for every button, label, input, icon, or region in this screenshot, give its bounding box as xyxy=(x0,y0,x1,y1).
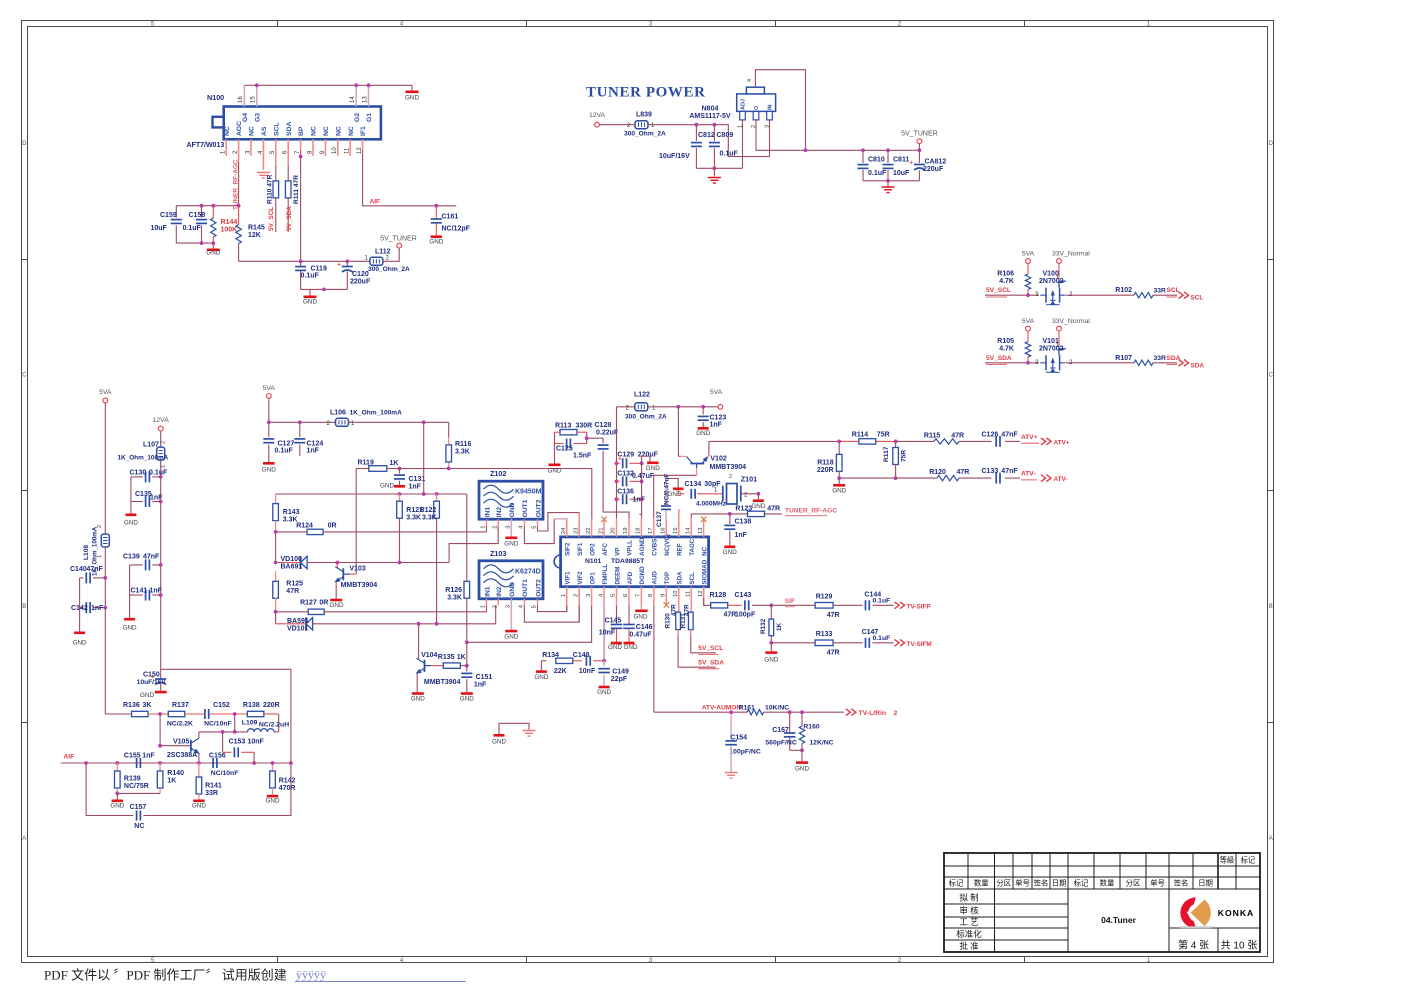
svg-text:签名: 签名 xyxy=(1174,879,1189,888)
wire 33V_Normal to gate xyxy=(1058,331,1060,347)
wire R126 node down to R135/C151 xyxy=(466,642,468,665)
svg-text:NC: NC xyxy=(323,126,330,136)
svg-text:33V_Normal: 33V_Normal xyxy=(1052,318,1090,325)
svg-text:G3: G3 xyxy=(254,113,261,122)
svg-text:2: 2 xyxy=(894,710,898,717)
wire pin10 SDA to R130 xyxy=(678,606,680,612)
svg-text:DEEM: DEEM xyxy=(614,567,621,585)
svg-text:IN1: IN1 xyxy=(484,507,491,518)
svg-text:1: 1 xyxy=(481,605,487,608)
capacitor C131 xyxy=(399,469,401,474)
svg-text:GND: GND xyxy=(751,503,765,510)
svg-text:R134: R134 xyxy=(542,652,559,659)
svg-text:33R: 33R xyxy=(205,790,218,797)
earth ground under C154 xyxy=(725,772,738,774)
transistor V102 MMBT3904 xyxy=(691,463,705,465)
svg-text:0R: 0R xyxy=(319,600,328,607)
net SCL output xyxy=(1153,294,1177,296)
resistor R117 xyxy=(894,440,898,444)
capacitor C810 xyxy=(862,150,864,163)
svg-text:R105: R105 xyxy=(997,338,1014,345)
svg-text:R116: R116 xyxy=(455,441,471,448)
svg-text:R138: R138 xyxy=(243,702,260,709)
wire to R115 xyxy=(896,440,934,442)
svg-text:TV-SIFP: TV-SIFP xyxy=(907,603,932,610)
svg-text:R124: R124 xyxy=(296,523,313,530)
svg-text:数量: 数量 xyxy=(974,879,989,888)
resistor R142 xyxy=(272,763,274,771)
svg-text:R136: R136 xyxy=(123,702,140,709)
net SDA output xyxy=(1153,362,1177,364)
N100 bottom pin stubs xyxy=(225,139,227,156)
wire R127 row xyxy=(274,610,278,614)
V102 collector wire to 5VA rail xyxy=(681,455,687,457)
svg-text:V104: V104 xyxy=(421,652,437,659)
V104 emitter to gnd xyxy=(416,674,418,692)
svg-text:0.1uF: 0.1uF xyxy=(275,448,294,455)
resistor R116 xyxy=(448,437,450,444)
svg-text:C138: C138 xyxy=(735,519,752,526)
svg-text:C119: C119 xyxy=(311,266,327,273)
capacitor C153 branch xyxy=(222,732,224,752)
svg-text:R128: R128 xyxy=(710,592,727,599)
capacitor C161 xyxy=(435,206,437,219)
svg-text:ATV+: ATV+ xyxy=(1054,440,1070,447)
svg-text:GND: GND xyxy=(795,766,809,773)
svg-text:GND: GND xyxy=(262,467,276,474)
svg-text:1nF: 1nF xyxy=(91,605,104,612)
svg-text:GND: GND xyxy=(646,465,660,472)
transistor V104 MMBT3904 xyxy=(418,624,420,659)
svg-text:ATV-AUMONI: ATV-AUMONI xyxy=(702,705,743,712)
svg-text:IN1: IN1 xyxy=(484,586,491,597)
svg-text:3.3K: 3.3K xyxy=(422,515,437,522)
svg-text:REF: REF xyxy=(677,543,684,556)
resistor R102 33R xyxy=(1134,293,1153,298)
svg-text:SCL: SCL xyxy=(273,122,280,136)
wire bottom AGC rail xyxy=(176,242,213,244)
terminal 12VA xyxy=(595,122,600,127)
wire N804 pin1 to gnd rail xyxy=(742,120,744,168)
svg-text:C153: C153 xyxy=(229,738,246,745)
svg-text:330R: 330R xyxy=(576,423,593,430)
svg-text:2: 2 xyxy=(161,441,167,444)
svg-text:SDA: SDA xyxy=(1167,355,1181,362)
svg-text:5VA: 5VA xyxy=(263,385,276,392)
svg-text:100pF: 100pF xyxy=(735,612,756,619)
svg-text:C158: C158 xyxy=(189,212,206,219)
svg-text:R114: R114 xyxy=(852,432,868,439)
svg-text:R141: R141 xyxy=(205,783,222,790)
svg-text:单号: 单号 xyxy=(1150,879,1165,888)
capacitor C812 xyxy=(695,125,697,141)
svg-text:220R: 220R xyxy=(263,702,280,709)
transistor V103 MMBT3904 xyxy=(336,563,338,569)
wire C140 C142 left gnd xyxy=(79,578,81,632)
svg-text:D: D xyxy=(22,141,27,147)
svg-text:NC/12pF: NC/12pF xyxy=(442,225,471,232)
wire L106 node down xyxy=(423,422,425,494)
capacitor C134 xyxy=(677,490,679,494)
svg-text:1nF: 1nF xyxy=(150,588,163,595)
svg-text:1nF: 1nF xyxy=(409,484,422,491)
capacitor C138 xyxy=(729,514,731,524)
svg-text:GND: GND xyxy=(764,657,778,664)
wire R119 down to V103 base xyxy=(355,469,357,575)
svg-text:ATV+: ATV+ xyxy=(1021,434,1038,441)
wire mid rail R119-R116-pin22 xyxy=(356,469,592,521)
crystal Z101 xyxy=(727,484,738,505)
wire VD101 row xyxy=(275,612,277,624)
wire REF pin15 stub xyxy=(678,509,680,518)
svg-text:SCL: SCL xyxy=(1167,287,1180,294)
svg-text:C143: C143 xyxy=(735,592,752,599)
svg-text:G2: G2 xyxy=(354,113,361,122)
svg-text:4: 4 xyxy=(747,79,753,82)
capacitor C143 xyxy=(744,600,746,610)
Z102 pin stubs and numbers xyxy=(486,519,488,526)
wire 12VA rail bottom to right xyxy=(161,668,291,670)
svg-text:VIF1: VIF1 xyxy=(565,571,572,585)
terminal 33V_Normal (V101) xyxy=(1057,326,1062,331)
svg-text:22K: 22K xyxy=(554,668,567,675)
net TV-SIFP out xyxy=(895,602,900,609)
svg-text:5VA: 5VA xyxy=(1022,318,1035,325)
svg-text:OUT1: OUT1 xyxy=(522,499,529,517)
svg-text:10nF: 10nF xyxy=(599,629,616,636)
svg-text:GND: GND xyxy=(504,634,518,641)
svg-text:DGND: DGND xyxy=(639,566,646,585)
svg-text:IN2: IN2 xyxy=(496,507,503,518)
ground GND under R144 xyxy=(212,243,214,248)
svg-text:2: 2 xyxy=(729,474,732,480)
wire VD100 cathode rail xyxy=(307,562,449,564)
svg-text:OP2: OP2 xyxy=(589,543,596,556)
capacitor C142 xyxy=(93,607,105,609)
svg-text:GND: GND xyxy=(608,644,622,651)
wire TAGC pin14 to R123 xyxy=(691,514,730,518)
svg-text:C161: C161 xyxy=(442,213,459,220)
svg-text:ADJ: ADJ xyxy=(741,99,747,110)
svg-text:C156: C156 xyxy=(209,753,226,760)
ground GND under C127 xyxy=(263,462,275,465)
inductor L108 xyxy=(101,534,109,547)
svg-text:VP: VP xyxy=(614,548,621,556)
svg-text:CVBS: CVBS xyxy=(652,539,659,556)
svg-text:ÿÿÿÿÿ: ÿÿÿÿÿ xyxy=(296,968,326,982)
terminal 12VA left xyxy=(158,426,163,431)
net 5V_SDA vertical xyxy=(287,198,289,232)
svg-text:K6274D: K6274D xyxy=(515,568,541,575)
svg-text:NC(VC): NC(VC) xyxy=(664,534,671,556)
svg-text:OUT2: OUT2 xyxy=(535,499,542,517)
resistor R140 xyxy=(159,763,161,771)
svg-text:75R: 75R xyxy=(877,432,890,439)
resistor R136 xyxy=(132,711,149,716)
ground GND under R118 xyxy=(838,478,840,484)
svg-text:R107: R107 xyxy=(1115,355,1132,362)
ground GND under C161 xyxy=(431,235,443,238)
wire crystal to gnd xyxy=(741,493,759,495)
wire R131 to 5V_SCL xyxy=(691,636,716,653)
svg-text:5V_TUNER: 5V_TUNER xyxy=(901,131,938,138)
svg-text:AFD: AFD xyxy=(627,571,634,584)
svg-text:SCL: SCL xyxy=(1191,295,1204,302)
wire pin3 OP1 to R126 node xyxy=(467,606,592,643)
svg-text:C150: C150 xyxy=(143,672,160,679)
SAW filter Z103 body xyxy=(479,561,543,599)
svg-text:N100: N100 xyxy=(207,93,224,102)
svg-text:AGC: AGC xyxy=(236,121,243,136)
svg-text:0.1uF: 0.1uF xyxy=(149,470,168,477)
wire L112 to 5V_TUNER xyxy=(383,248,399,261)
wire top rail to GND xyxy=(244,84,412,86)
svg-text:100K: 100K xyxy=(221,227,238,234)
ground GND under C131 xyxy=(394,485,405,488)
svg-text:R110 47R: R110 47R xyxy=(267,174,274,204)
svg-text:OUT1: OUT1 xyxy=(522,579,529,597)
ground GND under C141 xyxy=(124,618,135,621)
resistor R145 xyxy=(238,206,240,225)
resistor R121 xyxy=(399,494,401,501)
svg-text:300_Ohm_2A: 300_Ohm_2A xyxy=(625,414,667,421)
svg-text:AMS1117-5V: AMS1117-5V xyxy=(689,113,731,120)
capacitor C125 xyxy=(555,443,564,445)
svg-text:5V_SDA: 5V_SDA xyxy=(286,206,293,231)
svg-text:R113: R113 xyxy=(555,423,571,430)
svg-text:NC: NC xyxy=(224,126,231,136)
svg-text:300_Ohm_2A: 300_Ohm_2A xyxy=(368,266,410,273)
svg-text:CA812: CA812 xyxy=(925,159,947,166)
wire V102 emitter rail to R114 xyxy=(709,440,839,442)
svg-text:C128: C128 xyxy=(595,422,612,429)
wire CVBS pin17 to V102 base xyxy=(654,475,697,518)
svg-text:16: 16 xyxy=(238,96,244,103)
svg-text:V102: V102 xyxy=(710,456,726,463)
wire left rail R143 to VD100 xyxy=(275,532,277,563)
svg-text:NC: NC xyxy=(335,126,342,136)
resistor R120 xyxy=(937,475,959,480)
svg-text:1K: 1K xyxy=(457,654,466,661)
wire L839 to regulator xyxy=(648,121,770,157)
capacitor C135 xyxy=(152,501,160,503)
svg-text:10K/NC: 10K/NC xyxy=(765,705,789,712)
svg-text:C123: C123 xyxy=(710,415,727,422)
wire 5V_TUNER rail xyxy=(806,149,920,151)
wire pin4 FMPLL down xyxy=(603,606,605,661)
svg-text:04.Tuner: 04.Tuner xyxy=(1101,915,1136,925)
svg-text:TV-L/Rin: TV-L/Rin xyxy=(859,710,887,717)
svg-text:V103: V103 xyxy=(349,566,365,573)
wire AGND pin18 rail xyxy=(639,463,641,514)
N804 pin boxes xyxy=(740,111,746,120)
N101 bottom stubs xyxy=(566,587,568,606)
svg-text:R111 47R: R111 47R xyxy=(293,175,300,204)
svg-text:C130: C130 xyxy=(130,470,147,477)
ground GND top right xyxy=(411,85,413,90)
ground earth under C809 xyxy=(713,168,715,176)
ground GND under C119 xyxy=(309,289,311,295)
svg-text:33V_Normal: 33V_Normal xyxy=(1052,251,1090,258)
resistor R122 xyxy=(436,494,438,501)
wire Z103 pin5 to N101 pin1 xyxy=(538,605,567,611)
capacitor C156 xyxy=(212,758,214,768)
svg-text:220R: 220R xyxy=(817,467,834,474)
svg-text:R127: R127 xyxy=(300,600,317,607)
svg-text:C126: C126 xyxy=(982,432,999,439)
ground GND left of C134 xyxy=(673,488,684,491)
Z103 wavy lines xyxy=(484,565,514,573)
ground GND under Z103 pin3 xyxy=(510,599,512,630)
svg-text:C145: C145 xyxy=(605,617,622,624)
svg-text:C120: C120 xyxy=(352,271,369,278)
svg-text:工 艺: 工 艺 xyxy=(959,917,978,927)
wire pin12 SIOMAD to R128 xyxy=(703,605,705,607)
svg-text:D: D xyxy=(1269,141,1274,147)
capacitor C145 xyxy=(611,624,623,626)
V104 base wire to R135 xyxy=(425,665,432,667)
wire rail y494 xyxy=(276,493,467,495)
svg-text:Z102: Z102 xyxy=(490,469,506,478)
inductor L112 xyxy=(370,257,383,265)
svg-text:日期: 日期 xyxy=(1052,879,1067,888)
svg-text:VPLL: VPLL xyxy=(627,540,634,556)
svg-text:AUD: AUD xyxy=(652,571,659,585)
svg-text:C149: C149 xyxy=(612,669,629,676)
wire SIF row to R129 xyxy=(771,604,815,606)
capacitor C167 xyxy=(789,712,791,732)
net 5V_SDA wire xyxy=(985,362,1039,364)
svg-text:C148: C148 xyxy=(573,652,590,659)
svg-text:4.7K: 4.7K xyxy=(999,346,1014,353)
ground GND under C142 xyxy=(74,632,85,635)
resistor R115 xyxy=(934,439,959,444)
svg-text:IN: IN xyxy=(768,104,774,110)
svg-text:33R: 33R xyxy=(1154,287,1167,294)
terminal 5V_TUNER xyxy=(397,243,402,248)
svg-text:+: + xyxy=(909,160,913,167)
svg-text:IF1: IF1 xyxy=(360,126,367,136)
net AIF wire pin12 xyxy=(362,139,364,150)
Z103 pin stubs and numbers xyxy=(486,599,488,606)
svg-text:R120: R120 xyxy=(929,469,946,476)
svg-text:GND: GND xyxy=(509,582,516,597)
svg-text:C154: C154 xyxy=(730,734,747,741)
svg-text:R117: R117 xyxy=(883,446,890,462)
svg-text:1: 1 xyxy=(161,465,167,468)
terminal 5V_TUNER right xyxy=(918,144,920,151)
svg-text:470R: 470R xyxy=(279,785,296,792)
ground GND under R160 xyxy=(801,750,803,761)
wire 12VA to L839 xyxy=(599,124,634,126)
svg-text:C134: C134 xyxy=(685,481,702,488)
svg-text:GND: GND xyxy=(192,803,206,810)
svg-text:GND: GND xyxy=(597,689,611,696)
svg-text:100pF/NC: 100pF/NC xyxy=(729,748,760,755)
svg-text:220uF: 220uF xyxy=(923,166,944,173)
svg-text:R144: R144 xyxy=(221,219,238,226)
svg-text:1nF: 1nF xyxy=(735,532,748,539)
svg-text:5V_TUNER: 5V_TUNER xyxy=(380,236,417,243)
svg-text:47R: 47R xyxy=(683,604,690,616)
capacitor C119 xyxy=(300,261,302,266)
svg-text:0.1uF: 0.1uF xyxy=(301,273,320,280)
wire R132 to TV-SIFM row xyxy=(771,642,815,644)
svg-text:NC/10nF: NC/10nF xyxy=(211,770,239,777)
svg-text:标准化: 标准化 xyxy=(956,929,982,939)
resistor R128 xyxy=(711,603,728,608)
wire VD101 cathode to V104/Z103pin2 xyxy=(313,623,496,625)
wire VP rail pin20 xyxy=(616,407,618,518)
svg-text:ATV-: ATV- xyxy=(1054,476,1068,483)
wire Z102 pin4 to N101 pin24 xyxy=(524,519,554,544)
svg-text:NC/2.2K: NC/2.2K xyxy=(167,721,193,728)
svg-text:MMBT3904: MMBT3904 xyxy=(341,582,378,589)
ground GND pin7 xyxy=(640,606,642,610)
frame zone ticks xyxy=(277,21,279,27)
svg-text:0.1uF: 0.1uF xyxy=(868,170,887,177)
resistor R131 xyxy=(688,612,693,629)
capacitor C154 xyxy=(730,712,732,739)
ground GND under C145 xyxy=(611,642,622,645)
svg-text:GND: GND xyxy=(110,803,124,810)
wire to R120 xyxy=(896,477,937,479)
wire 5VA center rail xyxy=(268,398,270,422)
svg-text:R118: R118 xyxy=(817,460,833,467)
svg-text:C125: C125 xyxy=(556,446,573,453)
wire C119 rail xyxy=(239,260,373,262)
svg-text:ATV-: ATV- xyxy=(1021,471,1036,478)
regulator N804 AMS1117-5V body xyxy=(737,94,776,112)
svg-text:2: 2 xyxy=(492,525,498,528)
svg-text:GND: GND xyxy=(73,640,87,647)
svg-text:TUNER POWER: TUNER POWER xyxy=(586,85,706,101)
resistor R137 xyxy=(168,711,185,716)
wire C150row to AIF xyxy=(290,669,292,763)
net TV-SIFM out xyxy=(895,639,900,646)
net 5V_SCL wire xyxy=(985,294,1039,296)
wire pin8 AUD down to TV-L/Rin row xyxy=(653,606,655,712)
svg-text:AFC: AFC xyxy=(602,543,609,556)
svg-text:14: 14 xyxy=(350,96,356,103)
diode VD100 BA691 xyxy=(300,556,302,569)
svg-text:3: 3 xyxy=(764,125,770,128)
svg-text:GND: GND xyxy=(548,468,562,475)
svg-text:GND: GND xyxy=(124,520,138,527)
svg-text:L122: L122 xyxy=(634,392,650,399)
svg-text:C127: C127 xyxy=(278,441,295,448)
svg-text:日期: 日期 xyxy=(1198,879,1213,888)
svg-text:1K_Ohm_100mA: 1K_Ohm_100mA xyxy=(350,410,403,417)
ground GND under R142 xyxy=(267,795,279,798)
capacitor C126 xyxy=(959,440,992,442)
svg-text:1nF: 1nF xyxy=(474,682,487,689)
svg-text:5V_SDA: 5V_SDA xyxy=(698,660,724,667)
svg-text:L109: L109 xyxy=(242,720,258,727)
svg-text:R135: R135 xyxy=(438,654,455,661)
resistor R135 xyxy=(443,663,460,668)
wire N804 tab pin4 to 5V rail xyxy=(755,70,805,151)
capacitor C148 xyxy=(585,656,587,666)
capacitor C809 xyxy=(713,125,715,141)
svg-text:1nF: 1nF xyxy=(710,422,723,429)
svg-text:1K: 1K xyxy=(167,778,176,785)
svg-text:47nF: 47nF xyxy=(1001,468,1018,475)
svg-text:4.000MHz: 4.000MHz xyxy=(696,501,727,508)
svg-text:第 4 张: 第 4 张 xyxy=(1178,939,1209,952)
IC N101 TDA9885T body xyxy=(561,537,709,587)
capacitor C152 xyxy=(204,709,206,719)
